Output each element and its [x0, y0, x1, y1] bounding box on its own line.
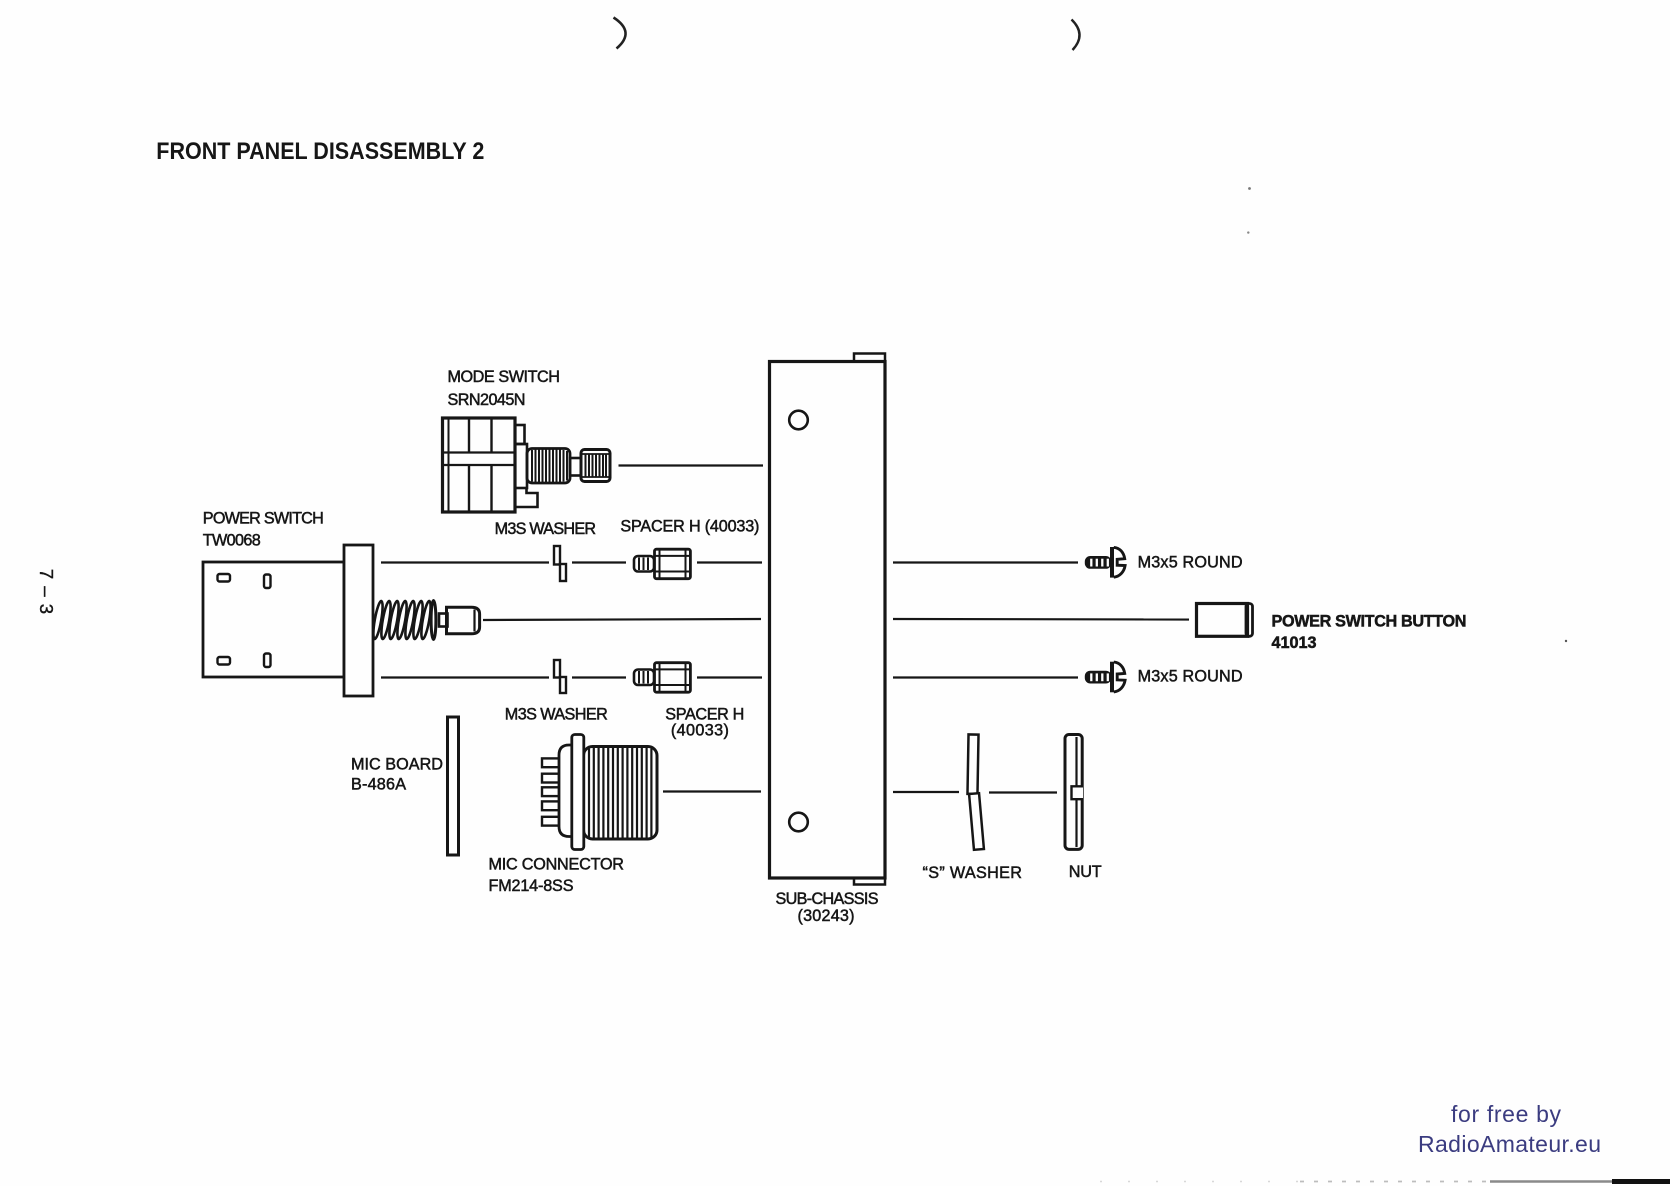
- spacer H 40033 bottom: [634, 663, 690, 693]
- svg-text:MODE SWITCH: MODE SWITCH: [448, 368, 561, 386]
- svg-text:NUT: NUT: [1069, 863, 1102, 881]
- power switch spring: [371, 600, 435, 639]
- svg-text:“S” WASHER: “S” WASHER: [923, 864, 1023, 882]
- svg-text:41013: 41013: [1272, 634, 1317, 652]
- svg-text:MIC CONNECTOR: MIC CONNECTOR: [489, 856, 625, 874]
- svg-text:FM214-8SS: FM214-8SS: [489, 877, 574, 895]
- sub-chassis 30243: [770, 354, 886, 885]
- wire sub-chassis to bottom screw: [893, 676, 1078, 678]
- mic connector FM214-8SS: [542, 735, 657, 850]
- svg-text:SUB-CHASSIS: SUB-CHASSIS: [776, 890, 879, 908]
- screw M3x5 round bottom: [1085, 662, 1125, 693]
- svg-text:(40033): (40033): [671, 722, 729, 740]
- svg-text:RadioAmateur.eu: RadioAmateur.eu: [1418, 1131, 1601, 1157]
- wire sub-chassis to S washer: [893, 791, 959, 793]
- svg-text:M3x5 ROUND: M3x5 ROUND: [1138, 668, 1243, 686]
- wire power switch bottom row (left): [381, 676, 549, 678]
- wire sub-chassis to top screw: [893, 561, 1078, 563]
- svg-text:SRN2045N: SRN2045N: [448, 391, 526, 409]
- wire sub-chassis to power switch button: [893, 618, 1189, 621]
- svg-text:SPACER H (40033): SPACER H (40033): [620, 518, 759, 536]
- registration mark left: [614, 18, 626, 49]
- screw M3x5 round top: [1085, 547, 1125, 578]
- svg-text:M3S WASHER: M3S WASHER: [505, 706, 608, 724]
- registration mark right: [1072, 20, 1080, 51]
- svg-text:TW0068: TW0068: [203, 532, 261, 550]
- spacer H 40033 top: [634, 549, 690, 579]
- svg-text:FRONT PANEL DISASSEMBLY 2: FRONT PANEL DISASSEMBLY 2: [156, 138, 484, 165]
- wire bottom row washer-spacer: [572, 676, 626, 678]
- svg-text:POWER SWITCH BUTTON: POWER SWITCH BUTTON: [1272, 613, 1467, 631]
- svg-text:for free by: for free by: [1451, 1101, 1562, 1127]
- mode switch SRN2045N: [443, 418, 611, 512]
- wire power switch top row (left): [381, 561, 549, 563]
- wire S washer to nut: [989, 791, 1057, 793]
- wire mic connector to sub-chassis: [663, 790, 761, 792]
- svg-text:7 – 3: 7 – 3: [36, 569, 57, 615]
- power switch TW0068: [203, 545, 373, 696]
- S washer: [967, 734, 983, 849]
- bottom scan edge: [1100, 1179, 1670, 1184]
- wire plunger to sub-chassis (middle): [483, 619, 761, 620]
- svg-text:B-486A: B-486A: [351, 776, 406, 794]
- svg-text:M3S WASHER: M3S WASHER: [495, 520, 596, 538]
- mic board B-486A: [448, 717, 459, 855]
- wire mode switch to sub-chassis: [619, 464, 764, 466]
- wire top row spacer-chassis: [697, 561, 762, 563]
- svg-text:(30243): (30243): [798, 907, 855, 925]
- wire bottom row spacer-chassis: [697, 676, 762, 678]
- svg-text:MIC BOARD: MIC BOARD: [351, 756, 443, 774]
- M3S washer bottom: [554, 660, 566, 693]
- power switch button 41013: [1197, 604, 1253, 637]
- nut: [1065, 735, 1083, 850]
- power switch plunger: [439, 607, 480, 634]
- scan speck: [1565, 640, 1567, 642]
- M3S washer top: [554, 546, 566, 581]
- svg-text:POWER SWITCH: POWER SWITCH: [203, 510, 324, 528]
- wire top row washer-spacer: [572, 561, 626, 563]
- svg-text:M3x5 ROUND: M3x5 ROUND: [1138, 554, 1243, 572]
